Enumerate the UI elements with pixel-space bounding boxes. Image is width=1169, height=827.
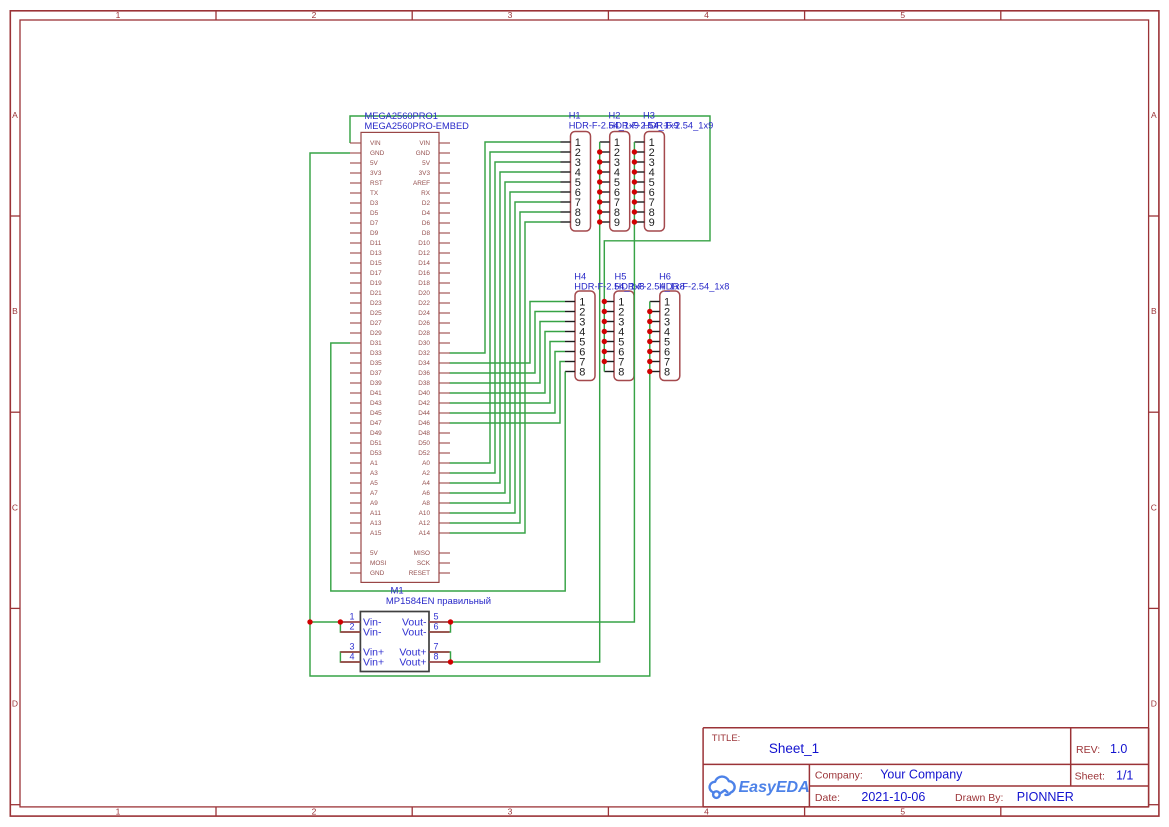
wire net Vout+: H2 rail down to M1 pin 8	[451, 142, 600, 662]
svg-text:4: 4	[704, 10, 709, 20]
svg-text:D10: D10	[418, 240, 430, 247]
svg-text:D41: D41	[370, 390, 382, 397]
svg-text:D9: D9	[370, 230, 379, 237]
svg-text:Company:: Company:	[815, 770, 863, 782]
svg-text:A11: A11	[370, 510, 381, 517]
svg-text:GND: GND	[370, 150, 385, 157]
svg-text:D47: D47	[370, 420, 382, 427]
wire net Vout-: H3 rail down to M1 pin 5	[451, 142, 635, 622]
svg-text:H5: H5	[615, 271, 627, 281]
svg-text:A13: A13	[370, 520, 382, 527]
EasyEDA logo	[710, 777, 735, 798]
svg-text:D40: D40	[418, 390, 430, 397]
svg-text:D19: D19	[370, 280, 382, 287]
svg-text:3: 3	[508, 10, 513, 20]
svg-text:A0: A0	[422, 460, 430, 467]
svg-text:AREF: AREF	[413, 180, 430, 187]
svg-text:D16: D16	[418, 270, 430, 277]
svg-text:D25: D25	[370, 310, 382, 317]
connector H2 body	[600, 132, 630, 232]
svg-text:D12: D12	[418, 250, 430, 257]
svg-text:A: A	[1151, 110, 1157, 120]
svg-text:1/1: 1/1	[1116, 769, 1133, 783]
svg-text:1: 1	[350, 611, 355, 621]
wire net A0: MEGA A0 to H1 pin2	[450, 152, 561, 463]
module M1 pin stubs	[340, 621, 360, 623]
junction dots H2 pins 2-9	[597, 149, 602, 154]
wire net D32: MEGA D32 to H1 pin1	[450, 142, 561, 353]
wire net A14: MEGA A14 to H1 pin9	[450, 222, 561, 533]
svg-text:D20: D20	[418, 290, 430, 297]
svg-text:D4: D4	[422, 210, 431, 217]
svg-text:D37: D37	[370, 370, 382, 377]
svg-text:5V: 5V	[370, 160, 379, 167]
wire net D38: MEGA D38 to H4 pin3	[450, 322, 566, 384]
svg-text:2021-10-06: 2021-10-06	[861, 790, 925, 804]
svg-text:9: 9	[575, 217, 581, 229]
svg-text:4: 4	[350, 651, 355, 661]
svg-text:5V: 5V	[370, 550, 379, 557]
wire net A4: MEGA A4 to H1 pin4	[450, 172, 561, 483]
svg-text:D51: D51	[370, 440, 382, 447]
svg-text:RESET: RESET	[409, 570, 430, 577]
svg-text:MEGA2560PRO-EMBED: MEGA2560PRO-EMBED	[365, 121, 470, 131]
svg-text:D33: D33	[370, 350, 382, 357]
svg-text:D30: D30	[418, 340, 430, 347]
IC MEGA2560 pin stubs	[350, 142, 361, 144]
svg-text:A15: A15	[370, 530, 382, 537]
svg-text:2: 2	[312, 806, 317, 816]
svg-text:D38: D38	[418, 380, 430, 387]
svg-text:2: 2	[312, 10, 317, 20]
svg-text:TITLE:: TITLE:	[712, 733, 741, 744]
svg-text:D2: D2	[422, 200, 431, 207]
svg-text:Drawn By:: Drawn By:	[955, 792, 1003, 804]
svg-text:Vin+: Vin+	[363, 657, 384, 669]
svg-text:D24: D24	[418, 310, 430, 317]
wire net GND: MEGA pin GND-left down left rail to bottom rail to H6 rail	[310, 153, 650, 676]
svg-text:6: 6	[434, 621, 439, 631]
svg-text:1: 1	[116, 806, 121, 816]
svg-text:8: 8	[579, 366, 585, 378]
wire net A10: MEGA A10 to H1 pin7	[450, 202, 561, 513]
svg-text:H3: H3	[643, 110, 655, 120]
svg-text:4: 4	[704, 806, 709, 816]
svg-text:Vout+: Vout+	[399, 657, 426, 669]
svg-text:D23: D23	[370, 300, 382, 307]
svg-text:H1: H1	[569, 110, 581, 120]
svg-text:A12: A12	[419, 520, 431, 527]
svg-text:D49: D49	[370, 430, 382, 437]
svg-text:D18: D18	[418, 280, 430, 287]
svg-text:D22: D22	[418, 300, 430, 307]
connector H3 pin numbers	[649, 137, 655, 229]
svg-text:VIN: VIN	[419, 140, 430, 147]
svg-text:D36: D36	[418, 370, 430, 377]
svg-text:HDR-F-2.54_1x9: HDR-F-2.54_1x9	[643, 121, 713, 131]
wire net VIN: MEGA pin VIN-left to H5 rail via top	[350, 116, 710, 372]
svg-text:D50: D50	[418, 440, 430, 447]
svg-text:3: 3	[508, 806, 513, 816]
svg-text:D53: D53	[370, 450, 382, 457]
IC U-MEGA2560PRO1 body	[361, 132, 439, 582]
svg-text:D3: D3	[370, 200, 379, 207]
svg-text:D6: D6	[422, 220, 431, 227]
svg-text:1.0: 1.0	[1110, 742, 1127, 756]
connector H5 pin numbers	[618, 296, 624, 378]
title block frame lines	[702, 728, 704, 807]
wire net D46: MEGA D46 to H4 pin7	[450, 362, 566, 424]
svg-text:8: 8	[434, 651, 439, 661]
connector H1 pin numbers	[575, 137, 581, 229]
svg-text:Date:: Date:	[815, 792, 840, 804]
svg-text:MOSI: MOSI	[370, 560, 387, 567]
svg-text:9: 9	[649, 217, 655, 229]
junction dots M1 area	[307, 619, 312, 624]
svg-text:D11: D11	[370, 240, 382, 247]
svg-text:PIONNER: PIONNER	[1017, 790, 1074, 804]
svg-text:C: C	[1151, 503, 1157, 513]
svg-text:TX: TX	[370, 190, 379, 197]
svg-text:REV:: REV:	[1076, 744, 1100, 756]
svg-text:A: A	[12, 110, 18, 120]
svg-text:VIN: VIN	[370, 140, 381, 147]
svg-text:D5: D5	[370, 210, 379, 217]
svg-text:RX: RX	[421, 190, 431, 197]
svg-text:2: 2	[350, 621, 355, 631]
connector H6 pin numbers	[664, 296, 670, 378]
svg-text:H4: H4	[574, 271, 586, 281]
svg-text:D29: D29	[370, 330, 382, 337]
svg-text:A10: A10	[419, 510, 431, 517]
connector H4 pin numbers	[579, 296, 585, 378]
wire GND branch to M1 pin 1	[310, 621, 340, 623]
svg-text:D15: D15	[370, 260, 382, 267]
svg-text:A4: A4	[422, 480, 430, 487]
svg-text:MEGA2560PRO1: MEGA2560PRO1	[365, 111, 438, 121]
svg-text:3V3: 3V3	[419, 170, 431, 177]
connector H3 body	[634, 132, 664, 232]
svg-text:Sheet_1: Sheet_1	[769, 741, 819, 756]
svg-text:A14: A14	[419, 530, 431, 537]
svg-text:EasyEDA: EasyEDA	[739, 779, 810, 796]
wire net A6: MEGA A6 to H1 pin5	[450, 182, 561, 493]
svg-text:A3: A3	[370, 470, 378, 477]
wire net A12: MEGA A12 to H1 pin8	[450, 212, 561, 523]
svg-text:D48: D48	[418, 430, 430, 437]
svg-text:D8: D8	[422, 230, 431, 237]
svg-text:5: 5	[900, 806, 905, 816]
svg-text:Vin-: Vin-	[363, 627, 382, 639]
svg-text:H2: H2	[609, 110, 621, 120]
wire net A8: MEGA A8 to H1 pin6	[450, 192, 561, 503]
junction dots H3 pins 2-9	[632, 149, 637, 154]
wire M1 pin7-pin8 loop	[429, 652, 451, 662]
svg-text:H6: H6	[659, 271, 671, 281]
wire net A2: MEGA A2 to H1 pin3	[450, 162, 561, 473]
svg-text:SCK: SCK	[417, 560, 431, 567]
svg-text:A5: A5	[370, 480, 378, 487]
svg-text:D45: D45	[370, 410, 382, 417]
svg-text:D26: D26	[418, 320, 430, 327]
svg-text:D32: D32	[418, 350, 430, 357]
svg-text:D52: D52	[418, 450, 430, 457]
svg-text:D46: D46	[418, 420, 430, 427]
wire M1 pin3-pin4 loop	[340, 652, 360, 662]
svg-text:C: C	[12, 503, 18, 513]
svg-text:D35: D35	[370, 360, 382, 367]
svg-text:A2: A2	[422, 470, 430, 477]
svg-text:D34: D34	[418, 360, 430, 367]
svg-text:Vout-: Vout-	[402, 627, 427, 639]
svg-text:D17: D17	[370, 270, 382, 277]
svg-text:D27: D27	[370, 320, 382, 327]
wire net D40: MEGA D40 to H4 pin4	[450, 332, 566, 394]
svg-text:D28: D28	[418, 330, 430, 337]
svg-text:HDR-F-2.54_1x8: HDR-F-2.54_1x8	[659, 282, 729, 292]
svg-text:GND: GND	[416, 150, 431, 157]
wire net D36: MEGA D36 to H4 pin2	[450, 312, 566, 374]
svg-text:A7: A7	[370, 490, 378, 497]
svg-text:D: D	[12, 699, 18, 709]
svg-text:B: B	[12, 306, 18, 316]
module M1 MP1584EN body	[360, 612, 429, 672]
svg-text:D42: D42	[418, 400, 430, 407]
svg-text:5: 5	[434, 611, 439, 621]
svg-text:MISO: MISO	[414, 550, 430, 557]
connector H1 body	[561, 132, 591, 232]
svg-text:D44: D44	[418, 410, 430, 417]
wire net D44: MEGA D44 to H4 pin6	[450, 352, 566, 414]
connector H4 body	[565, 291, 595, 381]
connector H5 body	[604, 291, 634, 381]
svg-text:9: 9	[614, 217, 620, 229]
wire net D34: MEGA D34 to H4 pin1	[450, 302, 566, 364]
svg-text:8: 8	[664, 366, 670, 378]
svg-text:M1: M1	[391, 585, 404, 596]
junction dots H6 pins 2-8	[647, 309, 652, 314]
wire net D31: MEGA D31 to H4 pin8 via bottom	[331, 343, 565, 591]
svg-text:3V3: 3V3	[370, 170, 382, 177]
svg-text:3: 3	[350, 641, 355, 651]
svg-text:D21: D21	[370, 290, 382, 297]
svg-text:D: D	[1151, 699, 1157, 709]
svg-text:D39: D39	[370, 380, 382, 387]
svg-text:A6: A6	[422, 490, 430, 497]
svg-text:RST: RST	[370, 180, 383, 187]
svg-text:Your Company: Your Company	[880, 768, 963, 782]
wire M1 pin1-pin2 loop	[340, 622, 360, 632]
svg-text:D31: D31	[370, 340, 382, 347]
svg-text:8: 8	[618, 366, 624, 378]
connector H6 body	[650, 291, 680, 381]
connector H2 pin numbers	[614, 137, 620, 229]
svg-text:D14: D14	[418, 260, 430, 267]
svg-text:5: 5	[900, 10, 905, 20]
svg-text:MP1584EN правильный: MP1584EN правильный	[386, 596, 491, 607]
svg-text:Sheet:: Sheet:	[1075, 771, 1105, 783]
wire net D42: MEGA D42 to H4 pin5	[450, 342, 566, 404]
junction dots H5 pins 1-7	[602, 299, 607, 304]
svg-text:B: B	[1151, 306, 1157, 316]
svg-text:GND: GND	[370, 570, 385, 577]
svg-text:A9: A9	[370, 500, 378, 507]
svg-text:D43: D43	[370, 400, 382, 407]
svg-text:D7: D7	[370, 220, 379, 227]
svg-text:7: 7	[434, 641, 439, 651]
svg-text:A8: A8	[422, 500, 430, 507]
svg-text:D13: D13	[370, 250, 382, 257]
wire M1 pin5-pin6 loop	[429, 622, 451, 632]
svg-text:A1: A1	[370, 460, 378, 467]
svg-text:1: 1	[116, 10, 121, 20]
svg-text:5V: 5V	[422, 160, 431, 167]
